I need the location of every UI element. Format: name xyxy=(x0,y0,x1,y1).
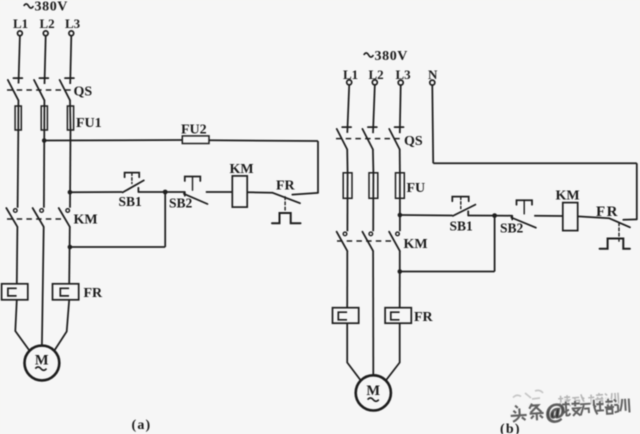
contactor KM main contact pole3 (a) xyxy=(59,208,70,227)
svg-text:QS: QS xyxy=(404,134,423,149)
svg-text:L1: L1 xyxy=(13,16,28,31)
wire KM pole2 to motor (b) xyxy=(372,251,374,376)
svg-text:(a): (a) xyxy=(132,418,152,433)
supply label ~380V (a) xyxy=(24,0,68,14)
pushbutton SB1 NC (b) xyxy=(452,197,475,216)
wire L2 terminal to QS (b) xyxy=(373,85,375,133)
wire junction to SB2 (b) xyxy=(495,215,513,217)
svg-text:L3: L3 xyxy=(65,16,81,31)
node: latch tap on L3 (b) xyxy=(398,269,403,274)
wire KM pole3 to FR heater2 (a) xyxy=(68,227,71,284)
wire QS to fuse FU pole2 (b) xyxy=(372,149,375,172)
svg-text:FR: FR xyxy=(596,204,619,220)
svg-text:M: M xyxy=(366,383,380,399)
wire FU to KM contact pole3 (b) xyxy=(399,198,401,231)
wire L1 terminal to QS (b) xyxy=(347,85,349,133)
thermal relay FR contact NC (a) xyxy=(272,193,318,223)
wire L3 terminal to QS (a) xyxy=(70,36,71,84)
terminal circle L3 (b) xyxy=(398,80,403,85)
wire right rail to N (b) xyxy=(433,162,637,164)
svg-text:QS: QS xyxy=(74,85,93,100)
contactor KM main contact pole1 (b) xyxy=(337,232,348,251)
contactor KM main contact pole2 (a) xyxy=(33,208,44,227)
wire L3 to SB1 (a) xyxy=(70,191,122,193)
svg-text:FR: FR xyxy=(414,310,434,325)
svg-text:FU1: FU1 xyxy=(76,116,102,131)
wire FU to KM contact pole2 (b) xyxy=(372,198,374,231)
wire L3 tap to SB1 (b) xyxy=(400,214,453,217)
svg-text:FU2: FU2 xyxy=(181,123,207,138)
watermark ghost smudge above 头条 xyxy=(513,390,543,399)
watermark ghost 技成培训 xyxy=(557,392,619,408)
wire SB1 to junction (b) xyxy=(468,215,494,217)
wire FU to KM contact pole1 (b) xyxy=(346,198,348,231)
fuse FU element 1 (b) xyxy=(343,173,352,199)
wire QS to fuse FU1 pole3 (a) xyxy=(69,100,72,130)
watermark 头条@技成培训 xyxy=(509,395,630,426)
svg-text:@: @ xyxy=(545,399,566,424)
motor tilde (b) xyxy=(368,398,379,401)
node: junction SB1/SB2/latch (b) xyxy=(492,213,497,218)
thermal relay FR heater 1 (b) xyxy=(333,308,359,324)
thermal relay FR heater 2 (b) xyxy=(385,308,411,324)
fuse FU element 3 (b) xyxy=(396,173,405,199)
svg-text:380V: 380V xyxy=(35,0,69,14)
node: control tap on L2 (a) xyxy=(42,138,47,143)
node: junction SB1/SB2/latch (a) xyxy=(163,190,168,195)
motor M letter (b) xyxy=(366,383,380,399)
wire FR to right rail (b) xyxy=(636,163,638,219)
svg-text:M: M xyxy=(35,353,49,369)
coil KM (a) xyxy=(232,176,247,207)
wire SB1 to junction (a) xyxy=(138,191,165,193)
switch QS pole 1 (a) xyxy=(8,78,22,100)
node: control tap on L3 (b) xyxy=(398,213,403,218)
supply label ~380V (b) xyxy=(364,49,408,64)
terminal circle L1 (a) xyxy=(18,31,23,36)
wire FU1 to KM contact pole1 (a) xyxy=(17,130,20,208)
wire through fuses (b) xyxy=(348,173,400,199)
wire FR heater1 to motor (a) xyxy=(15,300,29,351)
svg-text:L2: L2 xyxy=(40,16,55,31)
thermal relay FR heater 2 (a) xyxy=(53,284,79,300)
pushbutton SB2 NO (b) xyxy=(511,200,536,228)
wire QS to fuse FU pole1 (b) xyxy=(346,149,348,172)
switch QS pole 3 (b) xyxy=(389,127,403,149)
svg-text:SB1: SB1 xyxy=(450,219,474,234)
switch QS pole 3 (a) xyxy=(60,78,74,100)
wire latch horizontal (a) xyxy=(70,246,165,248)
wire junction to SB2 (a) xyxy=(165,191,185,193)
fuse FU1 element 2 (a) xyxy=(41,106,47,130)
wire latch vertical (a) xyxy=(164,192,166,247)
wire KM pole1 to FR heater1 (b) xyxy=(346,251,348,308)
motor M letter (a) xyxy=(35,353,49,369)
wire KM pole1 to FR heater1 (a) xyxy=(16,227,19,284)
wire N terminal down (b) xyxy=(431,86,434,164)
fuse FU1 element 1 (a) xyxy=(15,106,21,130)
motor tilde (a) xyxy=(35,367,46,370)
svg-text:FU: FU xyxy=(407,181,426,196)
svg-text:SB2: SB2 xyxy=(500,221,524,236)
svg-text:L3: L3 xyxy=(396,67,412,82)
contactor KM main contact pole2 (b) xyxy=(362,232,373,251)
wire FU1 to KM contact pole3 (a) xyxy=(69,130,72,208)
svg-text:FR: FR xyxy=(84,286,104,301)
wire SB2 to KM coil (b) xyxy=(534,215,563,217)
QS mechanical link dashed (a) xyxy=(7,89,72,91)
wire QS to fuse FU1 pole1 (a) xyxy=(17,100,19,130)
svg-text:SB1: SB1 xyxy=(119,194,143,209)
node: latch tap on L3 (a) xyxy=(68,245,73,250)
pushbutton SB1 NC (a) xyxy=(123,173,144,193)
motor M circle (a) xyxy=(25,346,60,381)
switch QS pole 2 (b) xyxy=(362,127,376,149)
coil KM (b) xyxy=(563,203,578,231)
fuse FU2 (a) xyxy=(182,136,209,144)
KM mechanical link dashed (a) xyxy=(7,218,63,220)
fuse FU element 2 (b) xyxy=(369,173,378,199)
wire FU2 to right rail (a) xyxy=(209,139,318,142)
wire FU1 to KM contact pole2 (a) xyxy=(43,130,45,208)
wire latch horizontal (b) xyxy=(400,271,495,273)
contactor KM main contact pole1 (a) xyxy=(6,208,17,227)
wire QS to fuse FU pole3 (b) xyxy=(399,149,401,172)
KM mechanical link dashed (b) xyxy=(337,240,393,242)
svg-text:FR: FR xyxy=(276,179,296,194)
fuse FU1 element 3 (a) xyxy=(67,106,73,130)
wire SB2 to KM coil (a) xyxy=(206,191,233,193)
switch QS pole 2 (a) xyxy=(34,78,48,100)
terminal circle L2 (b) xyxy=(372,80,377,85)
wire KM pole2 to motor (a) xyxy=(42,227,44,346)
pushbutton SB2 NO (a) xyxy=(184,177,208,205)
wire L3 terminal to QS (b) xyxy=(399,86,402,134)
switch QS pole 1 (b) xyxy=(337,127,351,149)
wire L1 terminal to QS (a) xyxy=(19,36,20,84)
terminal circle L1 (b) xyxy=(347,80,352,85)
wire KM coil to FR contact (a) xyxy=(247,191,273,194)
wire KM coil to FR contact (b) xyxy=(578,216,610,218)
terminal circle N (b) xyxy=(430,80,435,85)
contactor KM main contact pole3 (b) xyxy=(389,232,400,251)
svg-text:KM: KM xyxy=(404,237,428,252)
wire control feed L2 to FU2 (a) xyxy=(44,139,182,142)
svg-text:SB2: SB2 xyxy=(169,196,193,211)
QS mechanical link dashed (b) xyxy=(336,138,401,140)
control line start node on L3 (a) xyxy=(68,190,73,195)
thermal relay FR contact NC (b) xyxy=(600,218,637,249)
terminal circle L3 (a) xyxy=(69,31,74,36)
wire latch vertical (b) xyxy=(494,216,496,272)
wire KM pole3 to FR heater2 (b) xyxy=(399,251,401,308)
terminal circle L2 (a) xyxy=(43,31,48,36)
svg-text:KM: KM xyxy=(230,162,254,177)
wire right rail down (a) xyxy=(317,141,319,193)
wire FR heater2 to motor (b) xyxy=(386,323,400,380)
wire FR heater2 to motor (a) xyxy=(54,300,69,351)
wire FR heater1 to motor (b) xyxy=(347,323,360,380)
motor M circle (b) xyxy=(356,375,391,410)
svg-text:KM: KM xyxy=(74,213,98,228)
wire QS to fuse FU1 pole2 (a) xyxy=(43,100,45,130)
wire L2 terminal to QS (a) xyxy=(45,36,46,84)
svg-text:(b): (b) xyxy=(500,422,521,434)
svg-text:380V: 380V xyxy=(375,49,409,64)
svg-text:KM: KM xyxy=(556,188,580,203)
thermal relay FR heater 1 (a) xyxy=(2,284,28,300)
